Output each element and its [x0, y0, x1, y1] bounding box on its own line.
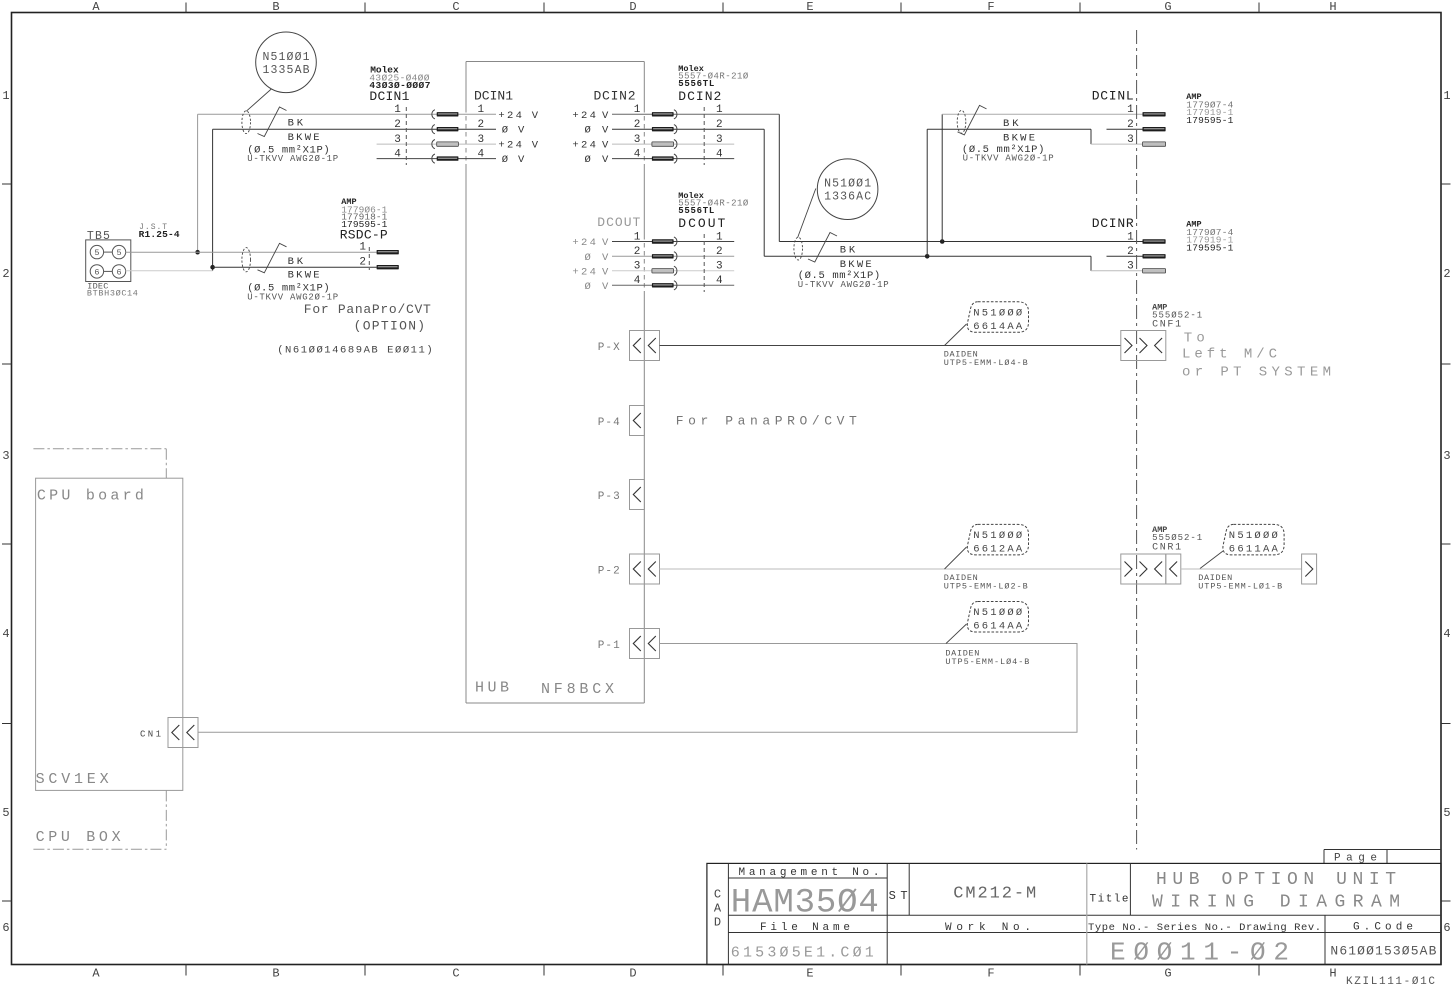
wire TB5 pin6 horizontal: [126, 270, 213, 272]
svg-text:+24: +24: [498, 140, 522, 152]
wire DCINL jog down to pin3: [1090, 129, 1092, 144]
svg-text:WIRING DIAGRAM: WIRING DIAGRAM: [1152, 893, 1400, 913]
cable bundle oval DCINL: [957, 110, 966, 133]
junction dot BK branch to DCINL: [940, 239, 945, 244]
svg-text:N51ØØØ: N51ØØØ: [973, 607, 1022, 619]
wire BK vertical branch up to DCINL pin1: [941, 114, 943, 241]
svg-text:6614AA: 6614AA: [973, 321, 1023, 333]
svg-text:A: A: [714, 902, 722, 916]
svg-text:DCIN2: DCIN2: [678, 89, 721, 104]
label DAIDEN UTP5-EMM-L02-B: [944, 573, 1028, 592]
wire BKWE jog down to DCINR pin3: [1090, 256, 1092, 271]
svg-text:R1.25-4: R1.25-4: [139, 229, 180, 240]
connector CN1: [168, 718, 198, 748]
DCIN2 voltage labels: [572, 110, 609, 166]
stub DCINL pin2: [1107, 128, 1143, 130]
svg-text:B: B: [272, 967, 279, 981]
svg-text:1: 1: [716, 231, 723, 243]
svg-text:+24: +24: [572, 237, 596, 249]
svg-text:CPU board: CPU board: [37, 488, 144, 505]
svg-text:A: A: [92, 0, 100, 14]
svg-text:+24: +24: [572, 266, 596, 278]
connector CNR1: [1121, 554, 1166, 584]
svg-text:File Name: File Name: [760, 922, 850, 934]
connector DCINL contacts: [1143, 112, 1166, 146]
svg-text:H: H: [1329, 967, 1336, 981]
svg-text:Ø: Ø: [585, 154, 591, 166]
wire DCIN1 pin2 (0V, BKWE): [213, 128, 496, 130]
svg-text:HAM35Ø4: HAM35Ø4: [731, 885, 879, 923]
svg-text:DCIN2: DCIN2: [594, 89, 636, 104]
wire DCIN2 pin1 (+24V BK): [612, 113, 779, 115]
RSDC-P mating dashes: [368, 247, 370, 270]
connector DCIN1 header label (Molex 43025-0400 / 43030-0007): [369, 65, 430, 105]
svg-text:U-TKVV AWG2Ø-1P: U-TKVV AWG2Ø-1P: [798, 280, 889, 290]
cable tag N51000 6614AA (P-X): [967, 302, 1028, 333]
svg-text:3: 3: [716, 134, 723, 146]
connector DCOUT mating face dashed line: [703, 234, 705, 292]
cable bundle oval DCIN1: [242, 111, 251, 134]
svg-text:+24: +24: [498, 110, 522, 122]
svg-text:4: 4: [634, 275, 641, 287]
svg-text:2: 2: [634, 246, 641, 258]
wire BK vertical DCIN1 to TB5: [197, 114, 199, 252]
svg-text:1: 1: [394, 104, 401, 116]
svg-text:4: 4: [634, 148, 641, 160]
svg-text:2: 2: [716, 119, 723, 131]
svg-text:6612AA: 6612AA: [973, 544, 1023, 556]
label DAIDEN UTP5-EMM-L04-B (P-X): [944, 350, 1028, 369]
connector CNF1 part label (AMP 555052-1): [1152, 303, 1202, 331]
leader tag 6612AA to P-2 wire: [945, 547, 967, 569]
unit boundary dash-dot line: [1136, 30, 1138, 850]
wire P-X to CNF1: [660, 345, 1121, 347]
svg-text:D: D: [629, 0, 636, 14]
svg-text:N51ØØ1: N51ØØ1: [263, 51, 310, 64]
cable bundle oval TB5: [242, 248, 251, 272]
svg-text:2: 2: [1127, 119, 1134, 131]
svg-text:1: 1: [634, 104, 641, 116]
TB5 terminal 5b: [112, 245, 125, 258]
connector DCOUT contacts: [652, 237, 677, 290]
svg-text:6: 6: [2, 921, 9, 935]
note To Left M/C or PT SYSTEM: [1182, 331, 1331, 381]
svg-text:6611AA: 6611AA: [1229, 544, 1279, 556]
junction dot BK/TB5: [195, 250, 200, 255]
connector P-3: [630, 480, 645, 510]
svg-text:179595-1: 179595-1: [1186, 115, 1233, 126]
wire DCIN1 pin3 (+24V): [377, 143, 496, 145]
svg-text:1: 1: [2, 89, 9, 103]
label DAIDEN UTP5-EMM-L04-B (P-1): [945, 649, 1029, 668]
svg-text:V: V: [602, 281, 609, 293]
svg-text:DCOUT: DCOUT: [597, 215, 640, 230]
HUB unit box NF8BCX: [466, 62, 644, 704]
cable tag N51000 6612AA (P-2): [967, 524, 1028, 555]
svg-text:6153Ø5E1.CØ1: 6153Ø5E1.CØ1: [731, 945, 874, 962]
svg-text:(OPTION): (OPTION): [354, 319, 426, 334]
wire DCOUT pin2: [612, 255, 734, 257]
svg-text:P-3: P-3: [598, 491, 620, 503]
connector DCINL pin numbers: [1127, 104, 1134, 146]
wire TB5 junction to RSDC-P pin2: [213, 266, 377, 268]
svg-text:V: V: [602, 140, 609, 152]
connector DCINR part numbers (AMP): [1186, 220, 1233, 254]
svg-text:A: A: [92, 967, 100, 981]
svg-text:V: V: [518, 125, 525, 137]
svg-text:3: 3: [2, 449, 9, 463]
svg-text:+24: +24: [572, 140, 596, 152]
svg-text:P-X: P-X: [598, 342, 620, 354]
wire DCIN2 pin4 (0V): [612, 158, 734, 160]
svg-text:V: V: [602, 154, 609, 166]
leader tag 6614AA to P-X wire: [945, 324, 967, 346]
svg-text:1336AC: 1336AC: [824, 191, 871, 204]
svg-text:5556TL: 5556TL: [678, 79, 714, 89]
svg-text:U-TKVV AWG2Ø-1P: U-TKVV AWG2Ø-1P: [247, 154, 338, 164]
TB5 terminal 5a: [90, 245, 103, 258]
wire DCIN1 pin1 (+24V, BK): [198, 113, 496, 115]
svg-text:To: To: [1184, 331, 1205, 347]
svg-text:4: 4: [716, 148, 723, 160]
CPU BOX boundary dash-dot: [33, 449, 166, 850]
connector RSDC-P label block (AMP): [340, 197, 388, 243]
connector DCINL part numbers (AMP): [1186, 92, 1233, 126]
cable tag N51000 6614AA (P-1): [967, 602, 1028, 633]
svg-text:E: E: [806, 967, 813, 981]
wire BKWE vertical DCIN1 to TB5: [212, 129, 214, 271]
svg-text:V: V: [602, 266, 609, 278]
svg-text:UTP5-EMM-LØ4-B: UTP5-EMM-LØ4-B: [944, 358, 1028, 368]
svg-text:C: C: [452, 0, 459, 14]
svg-text:BTBH3ØC14: BTBH3ØC14: [87, 288, 138, 298]
connector DCOUT hub-side pin numbers: [634, 231, 641, 287]
wire DCOUT pin1: [612, 241, 734, 243]
connector DCIN2 mating face dashed line: [703, 107, 705, 165]
svg-text:2: 2: [1127, 246, 1134, 258]
balloon N51001 1335AB: [256, 32, 317, 93]
wire DCINL pin1: [942, 113, 1142, 115]
wire P-1 to CN1 (via right drop): [198, 644, 1077, 733]
svg-text:DCINL: DCINL: [1092, 88, 1134, 103]
label CAD: [714, 888, 722, 930]
connector CNF1: [1121, 331, 1166, 361]
svg-text:D: D: [714, 916, 721, 930]
cable tag N51000 6611AA: [1223, 524, 1284, 555]
svg-text:EØØ11-Ø2: EØØ11-Ø2: [1110, 938, 1289, 968]
wire BK horizontal run to DCINR pin1: [779, 241, 1142, 243]
svg-text:For PanaPRO/CVT: For PanaPRO/CVT: [676, 414, 857, 429]
svg-text:For PanaPro/CVT: For PanaPro/CVT: [304, 302, 431, 317]
svg-text:5: 5: [2, 806, 9, 820]
svg-text:BKWE: BKWE: [288, 270, 320, 282]
DCOUT voltage labels: [572, 237, 609, 293]
svg-text:2: 2: [2, 267, 9, 281]
connector DCINR pin numbers: [1127, 231, 1134, 272]
wire colour mark DCIN1: [258, 107, 287, 137]
svg-text:CNF1: CNF1: [1152, 320, 1181, 331]
wire colour mark DCINR: [808, 233, 837, 263]
page box: [1324, 850, 1441, 864]
svg-text:C: C: [452, 967, 459, 981]
svg-text:2: 2: [716, 246, 723, 258]
svg-text:U-TKVV AWG2Ø-1P: U-TKVV AWG2Ø-1P: [963, 153, 1054, 163]
svg-text:2: 2: [1443, 267, 1450, 281]
svg-text:G: G: [1164, 967, 1171, 981]
svg-text:1: 1: [1127, 231, 1134, 243]
svg-text:H: H: [1329, 0, 1336, 14]
svg-text:Ø: Ø: [585, 281, 591, 293]
svg-text:KZIL111-Ø1C: KZIL111-Ø1C: [1346, 976, 1435, 986]
svg-text:V: V: [602, 252, 609, 264]
svg-text:179595-1: 179595-1: [1186, 242, 1233, 253]
svg-text:5: 5: [1443, 806, 1450, 820]
svg-text:6614AA: 6614AA: [973, 621, 1023, 633]
svg-text:3: 3: [634, 134, 641, 146]
wire BKWE vertical DCIN2 down: [763, 129, 765, 256]
svg-text:D: D: [629, 967, 636, 981]
svg-text:V: V: [532, 110, 539, 122]
svg-text:F: F: [987, 0, 994, 14]
connector P-2: [630, 554, 660, 584]
wire BK vertical DCIN2 down: [778, 114, 780, 241]
svg-text:Ø: Ø: [502, 154, 508, 166]
wire DCIN2 pin3 (+24V): [612, 143, 734, 145]
wire DCIN2 pin2 (0V BKWE): [612, 128, 764, 130]
svg-text:4: 4: [478, 148, 485, 160]
wire colour mark TB5: [258, 243, 287, 272]
connector DCIN2 header label (Molex 5557-04R-210 5556TL): [678, 64, 749, 104]
connector DCIN1 hub-side pin numbers 1-4: [478, 104, 485, 160]
svg-text:N61ØØ153Ø5AB: N61ØØ153Ø5AB: [1330, 944, 1436, 959]
svg-text:U-TKVV AWG2Ø-1P: U-TKVV AWG2Ø-1P: [247, 293, 338, 303]
leader balloon N51001-1336AC to cable: [798, 189, 816, 238]
svg-text:V: V: [532, 140, 539, 152]
wire P-2 to CNR1: [660, 568, 1121, 570]
svg-text:BKWE: BKWE: [1003, 133, 1035, 145]
svg-text:UTP5-EMM-LØ4-B: UTP5-EMM-LØ4-B: [945, 657, 1029, 667]
svg-text:V: V: [602, 110, 609, 122]
svg-text:NF8BCX: NF8BCX: [541, 681, 614, 698]
svg-text:1: 1: [359, 242, 366, 254]
svg-text:BK: BK: [840, 245, 856, 257]
title block frame: [707, 863, 1441, 964]
svg-text:5556TL: 5556TL: [678, 206, 714, 216]
svg-text:UTP5-EMM-LØ2-B: UTP5-EMM-LØ2-B: [944, 582, 1028, 592]
svg-text:1: 1: [1443, 89, 1450, 103]
connector P-1: [630, 629, 660, 659]
wire DCINL row2 horizontal: [927, 128, 1091, 130]
TB5 link 5-5: [104, 251, 113, 253]
connector DCIN2 cable-side pin numbers: [716, 104, 723, 160]
svg-text:N51ØØØ: N51ØØØ: [973, 308, 1022, 320]
leader balloon N51001-1335AB to cable: [246, 89, 271, 111]
svg-text:1: 1: [478, 104, 485, 116]
svg-text:E: E: [806, 0, 813, 14]
label DAIDEN UTP5-EMM-L01-B: [1198, 573, 1282, 592]
connector CNR1 part label (AMP 555052-1): [1152, 525, 1202, 554]
connector DCOUT cable-side pin numbers: [716, 231, 723, 287]
svg-text:CM212-M: CM212-M: [953, 885, 1036, 904]
TB5 terminal 6b: [112, 265, 125, 278]
svg-text:1: 1: [634, 231, 641, 243]
svg-text:P-4: P-4: [598, 417, 620, 429]
svg-text:2: 2: [359, 256, 366, 268]
svg-text:2: 2: [394, 119, 401, 131]
svg-text:Type No.- Series No.- Drawing: Type No.- Series No.- Drawing Rev.: [1088, 922, 1321, 934]
svg-text:5: 5: [94, 248, 99, 258]
connector end cell (to PT): [1302, 554, 1317, 584]
svg-text:6: 6: [1443, 921, 1450, 935]
svg-text:5: 5: [116, 248, 121, 258]
svg-text:Left M/C: Left M/C: [1182, 347, 1277, 363]
wire TB5 pin5 to RSDC-P pin1: [126, 251, 377, 253]
svg-text:BKWE: BKWE: [288, 132, 320, 144]
svg-text:6: 6: [116, 267, 121, 277]
svg-text:6: 6: [94, 267, 99, 277]
svg-text:3: 3: [716, 261, 723, 273]
stub DCINR pin2: [1107, 255, 1143, 257]
svg-text:P-2: P-2: [598, 566, 620, 578]
TB5 link 6-6: [104, 270, 113, 272]
leader tag 6614AA to P-1 wire: [946, 624, 967, 644]
connector DCIN2 contacts: [652, 110, 677, 164]
svg-text:(N61ØØ14689AB EØØ11): (N61ØØ14689AB EØØ11): [277, 345, 433, 357]
svg-text:N51ØØ1: N51ØØ1: [824, 178, 871, 191]
svg-text:1335AB: 1335AB: [263, 64, 310, 77]
svg-text:G: G: [1164, 0, 1171, 14]
cable bundle oval DCINR: [794, 237, 803, 260]
svg-text:4: 4: [716, 275, 723, 287]
terminal block TB5 body: [86, 240, 131, 282]
svg-text:Ø: Ø: [585, 252, 591, 264]
svg-text:C: C: [714, 888, 721, 902]
wire DCIN1 pin4 (0V): [377, 158, 496, 160]
title block divider (gray): [1086, 863, 1088, 964]
wire BKWE vertical branch up to DCINL: [926, 129, 928, 256]
svg-text:4: 4: [1443, 627, 1450, 641]
svg-text:4: 4: [2, 627, 9, 641]
svg-text:Management No.: Management No.: [739, 867, 880, 879]
svg-text:Ø: Ø: [502, 125, 508, 137]
TB5 terminal 6a: [90, 265, 103, 278]
wire BKWE horizontal run: [764, 255, 1091, 257]
RSDC-P contact pin1: [377, 250, 399, 254]
connector DCIN2 hub-side pin numbers: [634, 104, 641, 160]
svg-text:3: 3: [1443, 449, 1450, 463]
RSDC-P contact pin2: [377, 265, 399, 269]
svg-text:CN1: CN1: [140, 730, 161, 740]
svg-text:1: 1: [716, 104, 723, 116]
wire DCOUT pin4: [612, 284, 734, 286]
svg-text:BK: BK: [288, 256, 304, 268]
connector CNR1 mate cell: [1166, 554, 1181, 584]
junction dot BKWE/TB5: [210, 265, 215, 270]
svg-text:HUB OPTION UNIT: HUB OPTION UNIT: [1156, 870, 1396, 890]
svg-text:4: 4: [394, 148, 401, 160]
svg-text:CNR1: CNR1: [1152, 543, 1181, 554]
svg-text:V: V: [602, 237, 609, 249]
svg-text:BK: BK: [1003, 118, 1019, 130]
svg-text:or PT SYSTEM: or PT SYSTEM: [1182, 365, 1331, 381]
svg-text:P-1: P-1: [598, 640, 620, 652]
svg-text:DCIN1: DCIN1: [474, 89, 513, 104]
svg-text:DCIN1: DCIN1: [369, 89, 409, 104]
svg-text:Page: Page: [1334, 853, 1377, 865]
svg-text:V: V: [518, 154, 525, 166]
svg-text:G.Code: G.Code: [1353, 921, 1413, 933]
svg-text:DCINR: DCINR: [1092, 216, 1134, 231]
connector DCINR contacts: [1143, 239, 1166, 273]
svg-text:CPU BOX: CPU BOX: [36, 829, 121, 846]
leader tag 6611AA to wire: [1200, 551, 1223, 569]
svg-text:V: V: [602, 125, 609, 137]
connector P-4: [630, 406, 645, 436]
connector DCIN1 mating face dashed line: [405, 107, 407, 165]
svg-text:N51ØØØ: N51ØØØ: [973, 530, 1022, 542]
svg-text:TB5: TB5: [87, 230, 110, 243]
svg-text:B: B: [272, 0, 279, 14]
connector DCIN1 cable-side pin numbers 1-4: [394, 104, 401, 160]
svg-text:1: 1: [1127, 104, 1134, 116]
connector P-X: [630, 331, 660, 361]
svg-text:3: 3: [1127, 261, 1134, 273]
svg-text:2: 2: [478, 119, 485, 131]
svg-text:555Ø52-1: 555Ø52-1: [1152, 533, 1202, 543]
svg-text:Ø: Ø: [585, 125, 591, 137]
CPU board box SCV1EX: [36, 478, 183, 790]
wire colour mark DCINL: [958, 105, 987, 134]
svg-text:Title: Title: [1090, 894, 1129, 906]
note For PanaPro/CVT (OPTION): [304, 302, 431, 334]
svg-text:ST: ST: [889, 889, 908, 903]
connector DCOUT header label (Molex 5557-04R-210 5556TL): [678, 191, 749, 231]
svg-text:BK: BK: [288, 118, 304, 130]
svg-text:N51ØØØ: N51ØØØ: [1229, 530, 1278, 542]
svg-text:RSDC-P: RSDC-P: [340, 228, 388, 243]
connector DCIN1 contacts: [432, 110, 459, 164]
svg-text:HUB: HUB: [475, 680, 509, 697]
balloon N51001 1336AC: [817, 159, 878, 220]
svg-text:+24: +24: [572, 110, 596, 122]
svg-text:F: F: [987, 967, 994, 981]
DCIN1 voltage labels +24V/0V: [498, 110, 538, 166]
svg-text:SCV1EX: SCV1EX: [36, 771, 109, 788]
svg-text:UTP5-EMM-LØ1-B: UTP5-EMM-LØ1-B: [1198, 582, 1282, 592]
wire DCOUT pin3: [612, 270, 734, 272]
junction dot BKWE branch to DCINL: [925, 254, 930, 259]
wire CNR1 to end connector: [1181, 568, 1302, 570]
svg-text:3: 3: [394, 134, 401, 146]
svg-text:3: 3: [634, 261, 641, 273]
svg-text:3: 3: [478, 134, 485, 146]
svg-text:2: 2: [634, 119, 641, 131]
svg-text:3: 3: [1127, 134, 1134, 146]
svg-text:DCOUT: DCOUT: [678, 216, 725, 231]
